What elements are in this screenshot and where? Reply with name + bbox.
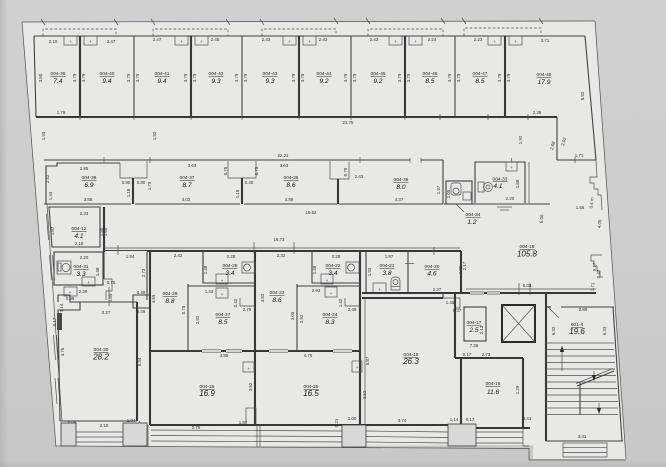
svg-text:004-12: 004-12: [72, 226, 87, 232]
svg-text:22.21: 22.21: [278, 153, 290, 158]
svg-text:3.63: 3.63: [188, 163, 197, 168]
svg-text:1.97: 1.97: [436, 185, 441, 194]
wall divider 45/46: [404, 36, 406, 117]
corridor walls right of 31: [102, 252, 147, 315]
svg-text:+: +: [308, 39, 311, 44]
room 004-17: [464, 307, 486, 348]
svg-text:0.75: 0.75: [254, 166, 259, 175]
svg-text:9.4: 9.4: [157, 78, 166, 85]
svg-text:1.14: 1.14: [59, 303, 64, 312]
dashed balcony bracket 3: [262, 29, 336, 36]
svg-text:+: +: [89, 39, 92, 44]
svg-text:5.87: 5.87: [365, 356, 370, 365]
double wall x135-139 room30/26: [136, 302, 138, 421]
svg-text:3.8: 3.8: [382, 270, 391, 277]
svg-text:0.79: 0.79: [343, 167, 348, 176]
room 004-33: [444, 158, 550, 204]
svg-text:2.42: 2.42: [45, 174, 50, 183]
svg-text:19.6: 19.6: [569, 327, 585, 336]
window marks wall y351: [202, 350, 242, 353]
stairwell left wall: [545, 293, 547, 441]
wall x461 upper: [460, 251, 462, 293]
svg-text:2.10: 2.10: [49, 39, 58, 44]
svg-text:9.2: 9.2: [319, 78, 328, 85]
windows on wall y204 right: [497, 207, 512, 210]
svg-text:+: +: [414, 39, 417, 44]
svg-text:3.79: 3.79: [72, 73, 77, 82]
stair treads: [546, 343, 618, 415]
window marks unit3: [269, 350, 352, 353]
shaft between 38/37: [120, 161, 147, 204]
svg-text:9.3: 9.3: [265, 78, 274, 85]
svg-text:004-44: 004-44: [317, 71, 332, 77]
ticks on top band bottom wall: [80, 114, 528, 120]
svg-text:004-24: 004-24: [323, 312, 338, 318]
svg-text:1.92: 1.92: [152, 131, 157, 140]
svg-text:+: +: [394, 39, 397, 44]
wall divider 41/42: [190, 36, 192, 117]
radiator room40: [84, 36, 97, 45]
unit wall x255: [254, 251, 256, 425]
unit wall x150: [149, 251, 151, 425]
svg-text:3.80: 3.80: [38, 73, 43, 82]
radiator room47: [488, 36, 501, 45]
svg-text:1.48: 1.48: [95, 267, 100, 276]
wall 1.71 y160: [557, 159, 596, 161]
svg-text:0.75: 0.75: [223, 166, 228, 175]
svg-text:004-37: 004-37: [180, 175, 195, 181]
svg-text:2.20: 2.20: [80, 255, 89, 260]
svg-text:9.3: 9.3: [211, 78, 220, 85]
svg-text:004-27: 004-27: [216, 312, 231, 318]
svg-text:1.43: 1.43: [205, 289, 214, 294]
svg-text:004-45: 004-45: [371, 71, 386, 77]
svg-text:2.47: 2.47: [153, 37, 162, 42]
outer boundary bottom wall: [56, 446, 626, 460]
svg-text:4.53: 4.53: [260, 293, 265, 302]
svg-text:0.40: 0.40: [245, 180, 254, 185]
svg-text:0.17: 0.17: [52, 317, 57, 326]
radiator room45: [389, 36, 402, 45]
svg-text:2.47: 2.47: [107, 39, 116, 44]
svg-text:2.73: 2.73: [141, 268, 146, 277]
room 004-12: [49, 207, 108, 247]
svg-text:3.52: 3.52: [362, 390, 367, 399]
svg-text:1.18: 1.18: [126, 188, 131, 197]
svg-text:4.02: 4.02: [182, 197, 191, 202]
window marks left wall: [47, 214, 61, 404]
svg-text:8.6: 8.6: [272, 297, 281, 304]
svg-text:3.79: 3.79: [126, 73, 131, 82]
wall divider 43/44: [298, 36, 300, 117]
svg-text:2.18: 2.18: [75, 241, 84, 246]
wall x104: [103, 207, 105, 252]
radiator room39: [64, 36, 77, 45]
room 004-20: [425, 247, 463, 292]
svg-text:4.6: 4.6: [427, 271, 436, 278]
room 004-47: [456, 37, 502, 85]
svg-text:3.31: 3.31: [578, 434, 587, 439]
svg-text:3.79: 3.79: [192, 73, 197, 82]
dashed balcony bracket 5: [464, 28, 541, 36]
piers bottom: [257, 425, 260, 447]
dim 16.73 line: [104, 242, 460, 254]
svg-text:0.49: 0.49: [137, 309, 146, 314]
svg-text:3.79: 3.79: [506, 73, 511, 82]
right upper wall x557: [556, 117, 558, 160]
svg-text:3.71: 3.71: [590, 282, 596, 292]
outer boundary top line: [22, 21, 595, 22]
wall divider 44/45: [350, 36, 352, 117]
svg-text:2.93: 2.93: [312, 288, 321, 293]
windows bottom center rooms: [151, 430, 523, 443]
svg-text:1.00: 1.00: [348, 416, 357, 421]
svg-text:8.0: 8.0: [396, 184, 405, 191]
svg-text:7.4: 7.4: [53, 78, 62, 85]
svg-text:2.17: 2.17: [462, 261, 467, 270]
svg-text:0.4 m: 0.4 m: [589, 197, 595, 209]
svg-text:004-22: 004-22: [326, 263, 341, 269]
radiator room48: [509, 36, 522, 45]
svg-text:004-39: 004-39: [51, 71, 66, 77]
svg-text:4.1: 4.1: [493, 183, 502, 190]
top room band: bottom wall: [36, 116, 557, 118]
svg-text:2.23: 2.23: [474, 37, 483, 42]
bath 004-28: [203, 251, 255, 284]
WC 004-34: [446, 181, 481, 226]
svg-text:1.88: 1.88: [515, 179, 520, 188]
svg-text:1.48: 1.48: [312, 265, 317, 274]
chimney box room26 corner: [246, 408, 256, 425]
svg-text:004-20: 004-20: [425, 264, 440, 270]
room 004-29: [151, 253, 188, 351]
hall below 31: [64, 287, 88, 296]
radiator room46: [409, 36, 422, 45]
long back wall y160: [44, 159, 443, 161]
wall y293: [362, 292, 596, 294]
room 004-35: [339, 160, 443, 204]
room 004-23: [260, 253, 297, 351]
svg-text:3.79: 3.79: [406, 73, 411, 82]
svg-text:6.06: 6.06: [539, 214, 545, 224]
bottom wall y425 center: [150, 424, 455, 426]
svg-text:004-47: 004-47: [473, 71, 488, 77]
svg-text:4.89: 4.89: [285, 197, 294, 202]
svg-text:4.85: 4.85: [220, 353, 229, 358]
stair arrow up left flight: [560, 346, 564, 372]
svg-text:16.5: 16.5: [303, 389, 319, 398]
dim 6.03 line: [466, 283, 596, 295]
radiator room42: [195, 36, 208, 45]
svg-text:1.71: 1.71: [575, 153, 584, 158]
svg-text:2.20: 2.20: [506, 196, 515, 201]
svg-text:7.36: 7.36: [470, 343, 479, 348]
dashed balcony bracket 4: [368, 29, 443, 36]
svg-text:19.52: 19.52: [306, 210, 318, 215]
svg-text:2.85: 2.85: [80, 166, 89, 171]
svg-text:2.45: 2.45: [211, 37, 220, 42]
tick marks on top boundary line: [41, 18, 543, 25]
svg-text:0.49: 0.49: [137, 290, 146, 295]
svg-text:2.28: 2.28: [332, 254, 341, 259]
svg-text:+: +: [221, 292, 224, 297]
svg-text:2.89: 2.89: [579, 307, 588, 312]
svg-text:004-42: 004-42: [209, 71, 224, 77]
room 004-25: [303, 384, 367, 399]
room 004-42: [192, 37, 239, 85]
svg-text:8.3: 8.3: [325, 319, 334, 326]
niche between 37/36: [223, 161, 259, 204]
dashed balcony bracket 2: [153, 29, 228, 36]
svg-text:8.6: 8.6: [286, 182, 295, 189]
area 004-16: [517, 244, 538, 259]
svg-text:1.93: 1.93: [41, 131, 46, 140]
svg-text:004-41: 004-41: [155, 71, 170, 77]
top room band: top wall: [34, 35, 585, 37]
bottom wall y351 unit2: [150, 350, 255, 352]
room 004-44: [300, 37, 348, 85]
pier on left outer wall: [57, 313, 62, 330]
svg-text:1.79: 1.79: [147, 181, 152, 190]
room 004-46: [406, 37, 452, 85]
svg-text:+: +: [356, 365, 359, 370]
bottom band top wall y251: [147, 250, 461, 252]
stair window: [563, 443, 607, 457]
svg-text:004-35: 004-35: [394, 177, 409, 183]
svg-text:0.17: 0.17: [463, 352, 472, 357]
svg-text:6.9: 6.9: [84, 182, 93, 189]
svg-text:0.41: 0.41: [523, 416, 532, 421]
window under room30: [76, 432, 123, 442]
stair break diagonal: [577, 371, 614, 386]
svg-text:2.43: 2.43: [370, 37, 379, 42]
svg-text:2.38: 2.38: [533, 110, 542, 115]
svg-text:2.43: 2.43: [262, 37, 271, 42]
svg-text:4.75: 4.75: [60, 347, 65, 356]
wall divider 39/40: [79, 36, 81, 117]
svg-text:8.5: 8.5: [425, 78, 434, 85]
svg-text:2.73: 2.73: [482, 352, 491, 357]
entry steps at right boundary: [590, 255, 603, 291]
dim line y249: [105, 250, 148, 252]
svg-text:0.99: 0.99: [66, 296, 75, 301]
svg-text:+: +: [69, 290, 72, 295]
svg-text:+: +: [510, 165, 513, 170]
svg-text:004-31: 004-31: [74, 264, 89, 270]
svg-text:0.89: 0.89: [108, 293, 113, 302]
svg-text:+: +: [69, 39, 72, 44]
top band left wall: [34, 36, 36, 117]
room 004-40: [81, 39, 131, 85]
chimney notch unit2 wall: [133, 295, 150, 308]
svg-text:004-48: 004-48: [537, 72, 552, 78]
room 004-27: [188, 286, 255, 326]
top band right inner slanted wall: [585, 36, 596, 160]
svg-text:1.92: 1.92: [518, 135, 523, 144]
wall divider 40/41: [133, 36, 135, 117]
svg-text:3.79: 3.79: [243, 73, 248, 82]
pier left of room30 window: [61, 423, 76, 446]
svg-text:1.79: 1.79: [57, 110, 66, 115]
svg-text:+: +: [288, 39, 291, 44]
inner face line of wall x365: [364, 298, 366, 425]
svg-text:1.29: 1.29: [515, 385, 520, 394]
svg-text:6.32: 6.32: [551, 326, 556, 335]
left outer wall inner line: [47, 204, 62, 421]
svg-text:1.14: 1.14: [450, 417, 459, 422]
svg-text:1.33: 1.33: [48, 191, 53, 200]
outer boundary right slanted wall: [595, 21, 626, 459]
svg-text:+: +: [514, 39, 517, 44]
svg-text:3.79: 3.79: [456, 73, 461, 82]
svg-text:+: +: [493, 39, 496, 44]
svg-text:004-33: 004-33: [493, 177, 508, 183]
svg-text:2.32: 2.32: [277, 253, 286, 258]
radiator room44: [303, 36, 316, 45]
svg-text:2.42: 2.42: [174, 253, 183, 258]
svg-text:3.63: 3.63: [280, 163, 289, 168]
room 004-39: [38, 39, 77, 85]
svg-text:4.05: 4.05: [597, 219, 603, 229]
svg-text:2.92: 2.92: [195, 315, 200, 324]
svg-text:11.6: 11.6: [487, 389, 500, 396]
svg-text:2.28: 2.28: [227, 254, 236, 259]
svg-text:+: +: [87, 280, 90, 285]
room 004-41: [135, 37, 188, 85]
svg-text:6.33: 6.33: [602, 326, 607, 335]
room 004-45: [352, 37, 402, 85]
room 004-30: [58, 295, 142, 428]
ticks on back wall: [104, 157, 575, 163]
svg-text:3.4: 3.4: [225, 270, 234, 277]
svg-text:+: +: [200, 39, 203, 44]
svg-text:0.42: 0.42: [233, 298, 238, 307]
svg-text:2.43: 2.43: [319, 37, 328, 42]
svg-text:2.33: 2.33: [80, 211, 89, 216]
svg-text:9.2: 9.2: [373, 78, 382, 85]
svg-text:16.73: 16.73: [274, 237, 286, 242]
svg-text:3.05: 3.05: [290, 311, 295, 320]
svg-text:8.7: 8.7: [182, 182, 191, 189]
stairwell door swing: [548, 307, 559, 318]
svg-text:0.90: 0.90: [122, 180, 131, 185]
svg-text:4.37: 4.37: [395, 197, 404, 202]
room 004-36: [244, 163, 337, 204]
middle band: room 004-38: [44, 163, 131, 204]
svg-text:17.9: 17.9: [538, 79, 551, 86]
elevator shaft: [502, 305, 535, 342]
svg-text:1.48: 1.48: [203, 265, 208, 274]
scanner edge shadow left: [0, 0, 8, 467]
svg-text:8.5: 8.5: [218, 319, 227, 326]
stair arrow down right flight: [597, 403, 601, 414]
svg-text:+: +: [247, 366, 250, 371]
entry steps right edge: [590, 160, 602, 210]
room 004-48: [506, 38, 585, 100]
room 004-37: [135, 163, 240, 204]
svg-text:1.45: 1.45: [446, 300, 455, 305]
wall divider 46/47: [454, 36, 456, 117]
wall divider 47/48: [504, 36, 506, 117]
dashed balcony bracket 1: [43, 29, 116, 36]
room 004-19: [352, 293, 462, 423]
radiator room41: [175, 36, 188, 45]
svg-text:0.47: 0.47: [596, 269, 601, 278]
niche between 36/35: [330, 161, 349, 204]
svg-text:004-28: 004-28: [223, 263, 238, 269]
svg-text:004-23: 004-23: [270, 290, 285, 296]
svg-text:1.2: 1.2: [467, 219, 476, 226]
svg-text:3.52: 3.52: [248, 382, 253, 391]
outer boundary left wall: [22, 22, 56, 447]
svg-text:1.05: 1.05: [446, 189, 451, 198]
svg-text:9.4: 9.4: [102, 78, 111, 85]
svg-text:004-46: 004-46: [423, 71, 438, 77]
svg-text:3.79: 3.79: [447, 73, 452, 82]
svg-text:004-40: 004-40: [100, 71, 115, 77]
svg-text:5.92: 5.92: [580, 91, 585, 100]
stairwell right wall inner: [613, 307, 622, 441]
bottom wall y351 unit3: [255, 350, 360, 352]
svg-text:0.21: 0.21: [334, 418, 339, 427]
svg-text:6.03: 6.03: [523, 283, 532, 288]
svg-text:3.74: 3.74: [398, 418, 407, 423]
svg-text:3.79: 3.79: [291, 73, 296, 82]
svg-text:1.66: 1.66: [576, 205, 585, 210]
svg-text:2.24: 2.24: [428, 37, 437, 42]
svg-text:3.79: 3.79: [135, 73, 140, 82]
svg-text:4.1: 4.1: [74, 233, 83, 240]
svg-text:1.93: 1.93: [367, 267, 372, 276]
svg-text:4.59: 4.59: [151, 294, 156, 303]
wall divider 42/43: [241, 36, 243, 117]
stair flight divider: [579, 382, 581, 415]
svg-text:1.97: 1.97: [385, 254, 394, 259]
svg-text:28.2: 28.2: [92, 353, 109, 362]
stair arrow down mid: [592, 371, 596, 381]
svg-text:3.79: 3.79: [234, 73, 239, 82]
svg-text:1.18: 1.18: [235, 189, 240, 198]
svg-text:0.80: 0.80: [137, 180, 146, 185]
svg-text:1.04: 1.04: [127, 418, 136, 423]
WC 004-21: [366, 251, 414, 293]
svg-text:0.27: 0.27: [102, 310, 111, 315]
svg-text:2.79: 2.79: [243, 307, 252, 312]
svg-text:3.79: 3.79: [343, 73, 348, 82]
room 004-31: [54, 252, 103, 286]
svg-text:2.48: 2.48: [348, 307, 357, 312]
svg-text:004-17: 004-17: [467, 320, 482, 326]
svg-text:004-36: 004-36: [284, 175, 299, 181]
svg-text:2.5: 2.5: [468, 327, 478, 334]
svg-text:2.37: 2.37: [433, 287, 442, 292]
svg-text:2.13: 2.13: [479, 325, 484, 334]
svg-text:004-18: 004-18: [486, 381, 501, 387]
svg-text:2.92: 2.92: [299, 314, 304, 323]
svg-text:3.79: 3.79: [183, 73, 188, 82]
wall x455 between 19 and hall: [454, 293, 456, 358]
svg-text:16.9: 16.9: [199, 389, 215, 398]
svg-text:1.42: 1.42: [338, 298, 343, 307]
svg-text:105.8: 105.8: [517, 250, 538, 259]
room 004-18: [455, 352, 530, 428]
svg-text:1.94: 1.94: [126, 254, 135, 259]
stair block: [546, 293, 623, 457]
svg-text:2.43: 2.43: [355, 174, 364, 179]
svg-text:+: +: [330, 291, 333, 296]
stairwell top wall: [561, 306, 614, 308]
svg-text:0.17: 0.17: [466, 417, 475, 422]
